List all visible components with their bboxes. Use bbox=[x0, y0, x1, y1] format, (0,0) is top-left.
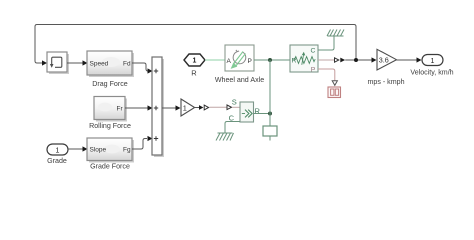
svg-text:mps - kmph: mps - kmph bbox=[367, 78, 404, 86]
wire R port to Wheel and Axle A bbox=[205, 59, 225, 61]
svg-text:Wheel and Axle: Wheel and Axle bbox=[215, 76, 264, 84]
motion sensor block (spring icon with arrow) bbox=[290, 45, 318, 74]
svg-text:P: P bbox=[311, 67, 316, 74]
svg-text:Speed: Speed bbox=[90, 61, 109, 68]
svg-text:Fr: Fr bbox=[117, 106, 124, 113]
svg-text:R: R bbox=[255, 107, 261, 116]
svg-text:Grade Force: Grade Force bbox=[90, 163, 130, 171]
wire feedback loop from velocity junction to Memory bbox=[35, 25, 356, 66]
svg-text:1: 1 bbox=[56, 148, 60, 155]
wire memory to Drag Force bbox=[67, 60, 88, 65]
svg-text:C: C bbox=[311, 48, 316, 55]
mass block bbox=[263, 126, 277, 141]
gain block 3.6 mps-kmph bbox=[367, 49, 404, 86]
PS wire converter to Force Source S port bbox=[210, 105, 241, 110]
svg-text:Drag Force: Drag Force bbox=[92, 80, 128, 88]
svg-text:Rolling Force: Rolling Force bbox=[89, 122, 131, 130]
subsystem Rolling Force bbox=[89, 97, 131, 131]
svg-text:3.6: 3.6 bbox=[379, 55, 389, 64]
svg-text:1: 1 bbox=[431, 58, 435, 65]
signal wire converter to velocity junction and feedback bbox=[345, 57, 376, 62]
svg-text:R: R bbox=[191, 68, 197, 77]
svg-text:Fg: Fg bbox=[123, 147, 131, 154]
wire Grade to Grade Force bbox=[68, 146, 88, 151]
junction node at (270,60) bbox=[268, 58, 272, 62]
hexagonal connection port R bbox=[184, 54, 205, 77]
memory block M (shadow) bbox=[49, 54, 69, 74]
wire sensor C to top ground bbox=[318, 36, 334, 50]
subsystem Grade Force bbox=[87, 138, 132, 171]
vertical net wire down to mass bbox=[269, 60, 271, 126]
subsystem Rolling Force (shadow) bbox=[96, 99, 127, 122]
subsystem Drag Force (shadow) bbox=[89, 53, 134, 77]
Wheel and Axle block bbox=[215, 45, 264, 84]
svg-text:S: S bbox=[232, 98, 237, 107]
wire gain 3.6 to outport bbox=[397, 57, 422, 62]
svg-text:1: 1 bbox=[183, 103, 187, 112]
ground (mechanical reference) below force source bbox=[216, 133, 234, 141]
sum block (shadow) bbox=[154, 59, 164, 157]
Simulink-PS converter (minimized) after Gain 1 bbox=[195, 105, 209, 110]
wire Grade Force Fg to Sum bbox=[132, 136, 153, 149]
svg-text:A: A bbox=[227, 58, 232, 65]
svg-text:1: 1 bbox=[193, 58, 197, 65]
wire Drag Force Fd to Sum bbox=[132, 63, 153, 74]
sum block bbox=[152, 57, 162, 155]
memory block bbox=[47, 52, 67, 72]
outport Velocity, km/h bbox=[410, 55, 453, 77]
junction node at (356,60) bbox=[354, 58, 358, 62]
subsystem Grade Force (shadow) bbox=[89, 140, 134, 163]
junction node at (270,113.5) bbox=[268, 112, 272, 116]
PS wire sensor V to converter bbox=[318, 58, 345, 63]
svg-text:R: R bbox=[292, 58, 297, 65]
force source block (Ideal Force Source) bbox=[229, 98, 261, 123]
wire force source C to ground bbox=[225, 122, 240, 134]
wire force source R to translational net junction bbox=[254, 112, 273, 116]
PS terminator block (unconnected) bbox=[328, 87, 341, 98]
wire Sum to Gain 1 bbox=[162, 105, 181, 110]
svg-text:Velocity, km/h: Velocity, km/h bbox=[410, 69, 453, 77]
inport Grade bbox=[47, 144, 68, 165]
PS wire sensor P down to terminator bbox=[318, 69, 337, 85]
ground (mechanical reference) top right bbox=[327, 30, 344, 37]
svg-text:Fd: Fd bbox=[123, 61, 131, 68]
wire Wheel and Axle P to junction bbox=[254, 58, 290, 126]
svg-text:Slope: Slope bbox=[90, 147, 107, 154]
subsystem Drag Force bbox=[87, 51, 132, 88]
wire Rolling Force Fr to Sum bbox=[125, 105, 153, 110]
svg-text:Grade: Grade bbox=[47, 157, 67, 165]
svg-text:P: P bbox=[248, 58, 252, 65]
gain block 1 bbox=[181, 99, 195, 116]
